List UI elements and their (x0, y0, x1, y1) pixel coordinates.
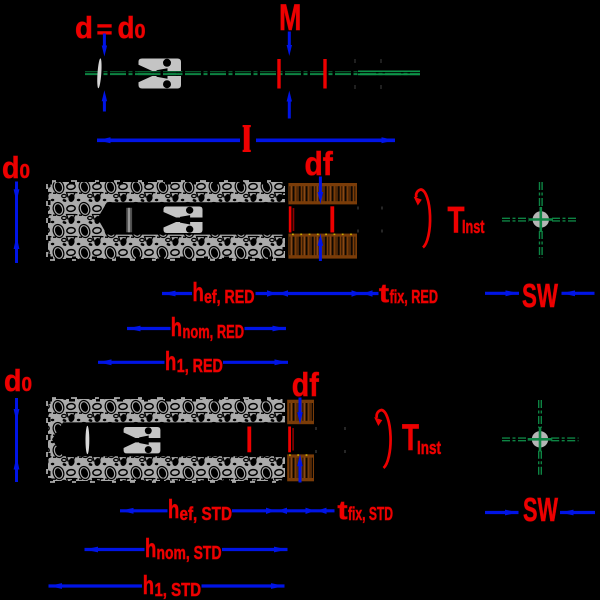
arrowhead h_ef,RED right (267, 290, 277, 296)
arrowhead h_nom,STD left (85, 547, 99, 553)
torque arc T_inst RED (416, 190, 430, 248)
arrowhead t_fix,RED right outer (363, 290, 373, 296)
svg-text:0: 0 (20, 161, 31, 183)
dimension line h_ef,RED left segment (162, 292, 192, 295)
arrowhead SW right pointer RED (562, 290, 576, 296)
arrowhead SW left pointer RED (506, 290, 520, 296)
label l (244, 125, 250, 152)
svg-text:h: h (165, 346, 176, 376)
screw head pictogram (top diagram) (139, 59, 182, 89)
screw shank marks red RED (289, 206, 292, 232)
dimension line h_ef/t_fix,STD shared segment (232, 509, 335, 512)
overall length l dimension line (97, 139, 240, 143)
svg-text:h: h (171, 312, 182, 342)
screw thread end mark in concrete STD (247, 427, 251, 453)
ragged edges block RED (47, 181, 285, 260)
arrowhead t_fix,STD right outer (317, 508, 327, 514)
M dimension arrow bottom (288, 101, 291, 119)
dimension d (washer dia) arrow top (103, 34, 106, 49)
svg-text:Inst: Inst (417, 438, 441, 458)
arrowhead SW left pointer STD (505, 510, 519, 516)
svg-text:SW: SW (523, 491, 559, 528)
arrowhead t_fix,RED left (279, 290, 289, 296)
dimension line h_1,RED right segment (223, 361, 288, 364)
concrete body RED view (48, 182, 285, 259)
svg-text:df: df (305, 145, 334, 182)
svg-text:d: d (2, 150, 20, 185)
SW pointer line right RED (562, 292, 595, 295)
dimension line h_1,RED left segment (98, 361, 165, 364)
svg-text:Inst: Inst (462, 217, 485, 237)
svg-text:ef, STD: ef, STD (180, 504, 233, 524)
arrowhead h_1,STD left (49, 583, 63, 589)
arrowhead t_fix,STD right (306, 508, 316, 514)
svg-text:h: h (168, 494, 179, 524)
d0 dimension line STD (15, 398, 18, 482)
arrowhead h_ef,STD right (266, 508, 276, 514)
drill hole RED view (98, 202, 286, 234)
arrowhead t_fix,RED right (352, 290, 362, 296)
arrowhead h_1,RED right (275, 359, 289, 365)
svg-text:ef, RED: ef, RED (204, 287, 255, 307)
dimension line h_ef,STD left segment (120, 509, 168, 512)
svg-text:1, STD: 1, STD (155, 580, 202, 600)
dimension line h_nom,RED right segment (245, 327, 287, 330)
svg-text:1, RED: 1, RED (177, 356, 223, 376)
df dimension arrows RED (319, 177, 322, 197)
svg-text:t: t (338, 495, 348, 525)
svg-text:h: h (145, 533, 156, 563)
screw head in hole STD (124, 427, 161, 453)
centerline thin (axis of screw, top view) (85, 71, 420, 73)
svg-text:d: d (118, 10, 135, 45)
svg-text:0: 0 (22, 374, 33, 396)
arrowhead h_ef,RED left (162, 291, 176, 297)
screw ghost beyond fixture STD (316, 427, 345, 453)
arrowhead SW right pointer STD (560, 510, 574, 516)
arrowhead t_fix,STD left (278, 508, 288, 514)
fixture wood top RED (288, 183, 357, 204)
arrowhead h_1,STD right (271, 583, 285, 589)
screw thread ghost marks (355, 59, 381, 89)
drill hole STD view (52, 422, 285, 456)
M dimension arrow top (288, 32, 291, 48)
yellow specks on wood edge STD (289, 454, 312, 456)
fixture wood bottom RED (288, 234, 357, 259)
svg-text:t: t (379, 278, 389, 308)
dimension line h_nom,RED left segment (127, 327, 171, 330)
svg-text:d: d (4, 363, 22, 398)
concrete body STD view (48, 399, 285, 481)
screw washer (edge view, top diagram) (96, 58, 102, 88)
arrowhead h_nom,RED right (273, 326, 287, 332)
M zone tick right (323, 59, 326, 89)
arrowhead h_nom,STD right (274, 547, 288, 553)
fixture wood top STD (287, 400, 314, 425)
svg-text:h: h (143, 570, 154, 600)
SW pointer line right STD (560, 511, 595, 514)
svg-text:fix, RED: fix, RED (390, 287, 439, 307)
torque arc T_inst STD (377, 410, 391, 468)
dimension d arrow bottom (103, 99, 106, 112)
dimension line h_ef/t_fix,RED shared segment (256, 292, 379, 295)
screw head in hole RED (164, 207, 203, 234)
dimension line h_1,STD left segment (49, 584, 143, 587)
washer in hole STD (86, 426, 90, 454)
df dimension arrows STD (299, 398, 302, 417)
washer in hole RED (126, 208, 132, 233)
centerline bright tip segment (358, 70, 420, 72)
centerline main (85, 73, 420, 75)
d0 dimension line RED (15, 182, 18, 264)
svg-text:df: df (292, 366, 320, 403)
dimension line h_nom,STD right segment (222, 548, 288, 551)
svg-text:fix, STD: fix, STD (348, 504, 393, 524)
SW symbol STD (502, 400, 579, 476)
SW pointer line left STD (485, 511, 519, 514)
SW pointer line left RED (485, 292, 519, 295)
SW symbol (head end view) RED (502, 182, 579, 258)
svg-text:nom, STD: nom, STD (157, 543, 222, 563)
ragged edges block STD (47, 398, 285, 482)
dimension line h_nom,STD left segment (85, 548, 145, 551)
arrowhead h_nom,RED left (127, 326, 141, 332)
svg-text:nom, RED: nom, RED (183, 322, 245, 342)
screw ghost beyond fixture RED (358, 207, 382, 233)
arrowhead h_1,RED left (98, 359, 112, 365)
svg-text:h: h (193, 277, 204, 307)
centerline overlay on head (138, 71, 182, 73)
yellow specks on wood edge RED (292, 233, 352, 235)
svg-text:SW: SW (522, 277, 559, 314)
fixture wood bottom STD (287, 454, 314, 481)
arrowhead h_ef,STD left (120, 508, 134, 514)
svg-text:d: d (75, 10, 93, 45)
svg-text:0: 0 (135, 21, 146, 43)
M zone tick left (277, 59, 280, 89)
screw shank mark red STD (288, 427, 291, 453)
dimension line h_1,STD right segment (202, 584, 285, 587)
